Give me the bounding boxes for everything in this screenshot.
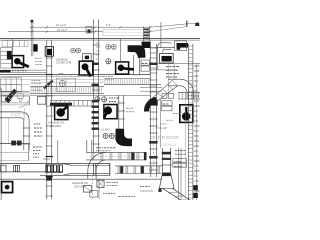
node dark appliance F1 <box>33 44 37 51</box>
wire: grid v x31.7 with dark cap <box>30 20 32 56</box>
diffuser D4 square <box>104 105 117 119</box>
svg-text:CD 500 CFM: CD 500 CFM <box>56 61 71 65</box>
wire: v x160.9 <box>160 22 162 48</box>
svg-text:CO: CO <box>11 112 19 117</box>
wire: dashed centerline corridor <box>91 175 93 199</box>
wire: page edge shading <box>0 88 2 200</box>
svg-text:1406.01: 1406.01 <box>162 143 177 147</box>
node text rows right of D4 <box>126 107 128 109</box>
diffuser D6 neck blob <box>182 112 190 120</box>
node small marks y193-198 center <box>103 192 105 194</box>
duct: small flex swoosh near main duct <box>44 81 53 89</box>
svg-text:CORRIDOR: CORRIDOR <box>150 135 179 141</box>
node dark end cap corridor duct <box>144 152 147 160</box>
wire: faint line y160.8 <box>0 160 29 162</box>
node dark mark top right corner <box>195 23 199 26</box>
diffuser D3 flex arrow <box>122 68 134 69</box>
duct: vertical duct pair x24-29 <box>23 120 25 150</box>
duct: wide light supply duct top <box>103 29 148 35</box>
node text rows near D6 <box>173 113 175 115</box>
diffuser D2 square <box>79 61 93 75</box>
node dim tick <box>31 26 33 29</box>
node right text column marks <box>194 65 196 67</box>
node stacked label boxes left of D6 <box>162 101 172 106</box>
diffuser D6 flex arrow <box>185 107 188 115</box>
duct: right edge vertical ladder <box>187 44 189 200</box>
node furniture circle room center <box>59 80 65 86</box>
wire: v x178.5-181 bottom <box>178 148 180 200</box>
node text col x33 <box>33 146 35 148</box>
wall: long wall y179.2 <box>0 178 162 180</box>
wire: faint verticals left-mid <box>8 118 10 143</box>
wall: main horizontal wall y74.5-76.5 <box>0 74 150 76</box>
node flange rungs on center duct <box>92 44 99 46</box>
node BD label <box>59 72 61 74</box>
svg-text:5'-2": 5'-2" <box>106 24 111 27</box>
node dark elbow fitting right of ladder <box>142 42 151 48</box>
node dark fixtures pair <box>11 141 16 146</box>
node dark shelf cells <box>7 51 12 59</box>
node table boxes left rooms <box>1 78 21 92</box>
duct: vertical pair x119-124 <box>118 95 120 128</box>
duct: jog pair x87-92 <box>86 140 88 152</box>
node dim tick <box>46 26 48 29</box>
node damper circles below D4 <box>103 133 108 138</box>
wire: dashed centerline duct A <box>152 108 154 172</box>
node small boxes left of swoosh <box>1 95 10 102</box>
node cabinets top-left <box>2 41 28 47</box>
node dark ticks ladder2 <box>120 166 123 173</box>
node fitting box bottom 2 <box>90 191 98 197</box>
wire: y95.4 <box>30 94 150 96</box>
node tiny boxes row y95-100 <box>162 93 167 98</box>
wall: hatch band right x104-150 <box>104 77 150 79</box>
diffuser D3 square <box>116 62 129 74</box>
svg-text:7' x 1 1/4": 7' x 1 1/4" <box>98 128 109 132</box>
wall: hatch band lower-left <box>0 91 29 93</box>
node dim tick <box>94 26 96 29</box>
node right text block rows <box>166 66 168 68</box>
duct: big bottom duct top line <box>0 162 110 164</box>
wall: y63.6 right <box>150 63 200 65</box>
node text rows below circle pair <box>103 75 105 77</box>
node dim tick <box>119 26 121 29</box>
svg-text:17'-1 1/4": 17'-1 1/4" <box>156 126 167 130</box>
svg-text:24x24x10 CD: 24x24x10 CD <box>48 121 64 125</box>
node D2 label box above <box>83 54 92 61</box>
duct: thick curved flex swoosh <box>6 90 16 101</box>
node text above corridor duct <box>96 147 98 149</box>
node left fittings boxes <box>0 165 6 172</box>
wall: y47.7 right <box>150 47 175 49</box>
wire: top dimension line 2 <box>8 31 151 33</box>
node text col x33 y57 <box>35 57 37 59</box>
node dark block at duct crossing <box>46 177 52 181</box>
node damper circles above D4 <box>95 97 100 102</box>
diffuser D1 neck blob <box>14 58 20 64</box>
node dark register box mid-right <box>160 54 174 63</box>
wire: v x57.8 <box>57 140 59 164</box>
node door swing arc <box>19 96 30 107</box>
svg-text:24x24x10 CD: 24x24x10 CD <box>72 181 88 185</box>
wall: extra parallels left mid band <box>0 79 104 81</box>
diffuser D5 neck blob <box>57 109 65 117</box>
wire: building top wall <box>0 38 200 40</box>
svg-text:250 CFM: 250 CFM <box>74 184 85 188</box>
node marks right of swoosh top <box>17 94 23 98</box>
duct: elbow arc left-mid <box>22 112 30 120</box>
svg-text:12x10: 12x10 <box>43 157 51 161</box>
diffuser D3 neck blob <box>118 65 124 71</box>
wire: dashed centerline corridor duct <box>90 155 146 157</box>
duct: dark insulated elbow center <box>115 129 131 147</box>
duct: right ladder duct horizontal <box>178 92 200 94</box>
svg-text:16'-4 1/2": 16'-4 1/2" <box>56 24 67 27</box>
wall: light double wall y103-105 <box>0 102 30 104</box>
node stacked label boxes right <box>173 159 187 163</box>
duct: big bottom duct bottom left part <box>0 171 62 173</box>
node X-box below corridor <box>97 180 104 187</box>
node dark cells right column <box>193 185 198 190</box>
node fitting box bottom with diagonal <box>84 186 92 193</box>
wall: dark wall segment left <box>0 70 11 73</box>
node dark cell mid right <box>158 189 161 192</box>
duct: corridor vertical duct A x150-156 <box>149 44 151 177</box>
node joint ticks <box>93 163 95 175</box>
node small square x38-46 <box>38 96 46 104</box>
duct: large elbow corridor down-left <box>88 152 106 170</box>
diffuser D6 square <box>180 105 193 123</box>
duct: vertical duct pair x47-52 full height <box>46 40 48 199</box>
wire: v x160.3 mid-right <box>159 99 161 148</box>
wall: rooms line y143.5 <box>0 143 29 145</box>
wall: lines to duct <box>11 69 47 71</box>
duct: horizontal duct to elbow left-mid <box>0 111 22 113</box>
diffuser D4 flex arrow <box>104 112 107 118</box>
duct: diagonal hatched duct right-center <box>153 80 173 98</box>
node dim tick <box>149 26 151 29</box>
diffuser D2 flex arrow <box>86 68 91 76</box>
wire: v x196.8 <box>196 64 198 200</box>
node dark lined top of duct <box>50 103 72 106</box>
wire: v extension x157.4 <box>156 53 158 70</box>
wire: top dimension line 1 <box>30 26 151 28</box>
duct: corridor ladder duct horizontal <box>86 151 146 153</box>
node specks right of center duct <box>96 42 98 44</box>
wall: hatch band left x30-104 <box>30 86 104 88</box>
duct: ladder duct 2 <box>115 165 162 167</box>
wire: background page <box>0 0 200 200</box>
node inline fitting squares trio <box>46 165 51 172</box>
duct: outline elbow right side down <box>168 78 180 80</box>
duct: dark insulated elbow top-center <box>128 45 146 58</box>
svg-text:20'-0 1/2": 20'-0 1/2" <box>57 29 68 32</box>
duct: straight duct to right <box>72 164 110 166</box>
duct: outline elbow top right <box>157 43 171 53</box>
node damper circle pair near D3 <box>106 59 111 64</box>
diffuser D5 square <box>55 106 68 120</box>
wire: faint line y152.5 <box>0 152 29 154</box>
diffuser D4 neck blob <box>104 107 112 115</box>
wire: v line x120.7 <box>120 39 122 62</box>
node exhaust fan box bottom-left <box>2 182 13 193</box>
damper small box top-left of duct <box>86 27 92 33</box>
node D1 label row <box>12 70 14 72</box>
node text column mid-left <box>34 123 35 125</box>
duct: vertical duct B x162-171 <box>162 148 164 173</box>
duct: taper transition <box>63 163 73 165</box>
node duct fitting with damper blob <box>45 47 53 57</box>
node damper circle pair left-center <box>71 48 76 53</box>
node dark supply elbow top right <box>177 43 188 48</box>
duct: vertical ladder x144-150 top <box>143 27 145 42</box>
duct: center vertical duct pair <box>93 19 95 152</box>
duct: diagonal duct to bottom-right corner <box>162 188 180 200</box>
node boxes right of D3 <box>141 60 149 65</box>
node text block x30 y79 <box>32 80 33 82</box>
node duct band ticks <box>56 75 58 77</box>
diffuser D1 square <box>12 56 24 68</box>
duct: horizontal duct x50-95 <box>50 100 95 102</box>
node leader post <box>186 21 188 27</box>
node damper circle pair upper <box>106 44 111 49</box>
duct: drop duct pair below dark elbow <box>133 55 135 75</box>
duct: thick dark elbow right (to corridor duct) <box>147 100 157 112</box>
node dark fitting top of duct A <box>149 100 158 106</box>
node cabinet box right <box>175 41 187 51</box>
diffuser D2 neck blob <box>82 64 88 70</box>
duct: transition trapezoid bottom right <box>159 173 174 189</box>
wire: diagonal dimension leaders top right <box>150 23 199 27</box>
diffuser D5 flex arrow <box>62 107 68 112</box>
wire: v x185.4 light <box>184 99 186 200</box>
wire: room divider v x12 <box>12 39 14 56</box>
wire: light verticals right-center <box>168 64 170 93</box>
node shelf column left <box>1 48 12 68</box>
diffuser D1 flex arrow <box>18 62 28 67</box>
svg-text:250 CFM: 250 CFM <box>50 124 61 128</box>
